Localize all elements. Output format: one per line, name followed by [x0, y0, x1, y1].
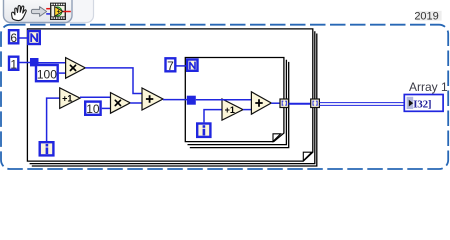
constant 1	[9, 57, 18, 72]
inner for loop border	[185, 58, 288, 148]
svg-text:100: 100	[37, 67, 57, 81]
increment node +1 (inner)	[222, 99, 243, 120]
svg-text:+: +	[57, 10, 61, 16]
wire 6 to N	[20, 37, 28, 39]
svg-text:10: 10	[86, 102, 100, 116]
svg-text:Array 1: Array 1	[409, 80, 448, 94]
multiply node x2	[111, 93, 131, 114]
wire 10 to multiply2 bottom	[102, 107, 111, 109]
wire multiply2 to add1 bottom	[130, 102, 142, 104]
svg-text:I32]: I32]	[413, 99, 431, 111]
wire i2 to increment	[204, 110, 222, 123]
wire tunnel to multiply top input	[39, 62, 67, 64]
wire 100 to multiply bottom input	[59, 72, 67, 74]
wire 7 to inner N	[177, 65, 187, 67]
snippet dashed border	[1, 25, 448, 169]
i terminal (inner loop)	[197, 124, 210, 137]
i terminal (outer loop)	[40, 142, 54, 155]
outer for loop border	[27, 29, 316, 166]
tunnel (outer loop left, solid)	[30, 58, 39, 66]
toolbar tab	[4, 0, 73, 23]
svg-text:7: 7	[167, 59, 174, 73]
wire multiply1 out	[85, 68, 142, 94]
add node (outer)	[142, 88, 163, 110]
wire +1b to add2 bottom	[243, 109, 252, 111]
multiply node x1	[66, 58, 86, 79]
wire +1 to multiply2 top	[80, 96, 111, 98]
outer loop folded corner	[303, 152, 312, 160]
wire i to increment	[47, 98, 60, 141]
svg-text:6: 6	[10, 31, 17, 45]
wire 2D array to indicator (double line)	[319, 102, 404, 104]
inner loop folded corner	[273, 134, 281, 142]
constant 100	[36, 65, 58, 81]
increment node +1 (outer)	[60, 88, 80, 109]
add node (inner)	[251, 92, 271, 114]
indexing tunnel (outer loop right)	[311, 99, 320, 108]
tunnel (inner loop left, solid)	[187, 96, 196, 105]
constant 6	[9, 30, 18, 45]
wire add2 out to indexing tunnel	[271, 102, 280, 104]
svg-text:2019: 2019	[414, 11, 438, 23]
svg-text:+1: +1	[62, 94, 72, 104]
svg-text:+1: +1	[225, 105, 235, 115]
wire 1 to tunnel	[20, 62, 31, 64]
wire add1 out to inner tunnel	[163, 99, 187, 101]
constant 7	[166, 58, 176, 73]
hand icon	[11, 4, 27, 21]
indexing tunnel (inner loop right)	[280, 99, 289, 108]
wire 1D array between tunnels	[289, 103, 311, 105]
version label 2019	[417, 11, 442, 21]
toolbar ghost tab	[4, 0, 94, 23]
inner loop N terminal	[187, 60, 197, 71]
svg-text:1: 1	[10, 57, 17, 71]
outer loop N terminal	[28, 31, 40, 44]
constant 10	[85, 102, 100, 116]
wire tunnel to add2 top input	[196, 99, 252, 101]
VI icon (filmstrip)	[46, 3, 71, 20]
arrow icon	[31, 7, 46, 17]
array indicator Array 1	[404, 95, 443, 112]
